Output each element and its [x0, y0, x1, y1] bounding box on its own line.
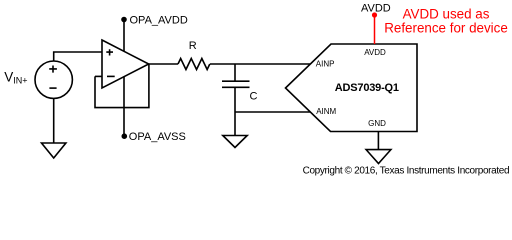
svg-text:Reference for device: Reference for device	[384, 20, 508, 35]
svg-text:AINM: AINM	[316, 107, 336, 116]
svg-text:AVDD: AVDD	[361, 3, 391, 15]
svg-text:AINP: AINP	[316, 60, 335, 69]
svg-text:C: C	[250, 91, 258, 103]
svg-text:OPA_AVDD: OPA_AVDD	[130, 15, 188, 27]
svg-text:ADS7039-Q1: ADS7039-Q1	[335, 82, 399, 94]
svg-text:Copyright © 2016, Texas Instru: Copyright © 2016, Texas Instruments Inco…	[303, 166, 510, 177]
svg-text:AVDD: AVDD	[364, 48, 386, 57]
svg-text:R: R	[189, 40, 197, 52]
svg-text:OPA_AVSS: OPA_AVSS	[129, 131, 186, 143]
svg-text:GND: GND	[368, 119, 386, 128]
